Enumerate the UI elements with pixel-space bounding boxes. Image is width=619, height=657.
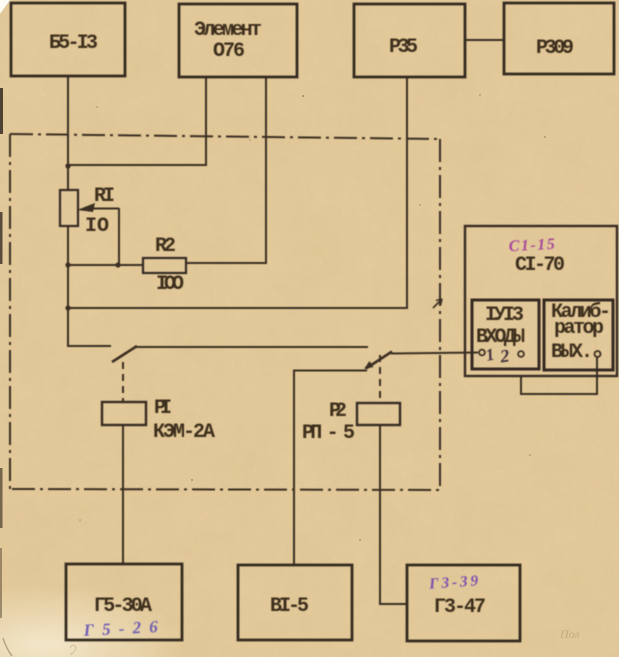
svg-text:Г3-47: Г3-47 bbox=[434, 596, 486, 619]
svg-text:R2: R2 bbox=[155, 235, 176, 258]
svg-text:ВЫХ.: ВЫХ. bbox=[551, 341, 593, 364]
svg-text:ВI-5: ВI-5 bbox=[270, 595, 309, 618]
svg-text:РП - 5: РП - 5 bbox=[302, 422, 355, 445]
svg-text:Р2: Р2 bbox=[329, 400, 347, 423]
svg-text:РI: РI bbox=[154, 397, 172, 420]
svg-text:СI-70: СI-70 bbox=[515, 254, 565, 277]
svg-text:Б5-I3: Б5-I3 bbox=[49, 32, 98, 55]
svg-text:Г5-30А: Г5-30А bbox=[94, 595, 152, 618]
svg-text:Р309: Р309 bbox=[536, 37, 574, 60]
svg-text:Элемент: Элемент bbox=[194, 19, 262, 42]
svg-text:IО: IО bbox=[85, 215, 109, 238]
svg-text:IУI3: IУI3 bbox=[485, 304, 524, 327]
svg-text:IОО: IОО bbox=[156, 273, 184, 296]
svg-text:RI: RI bbox=[94, 185, 115, 208]
svg-text:О76: О76 bbox=[213, 40, 245, 63]
svg-text:ратор: ратор bbox=[554, 317, 604, 340]
svg-text:С1-15: С1-15 bbox=[508, 236, 555, 255]
svg-text:Р35: Р35 bbox=[389, 36, 418, 59]
svg-text:Пол: Пол bbox=[559, 627, 580, 641]
svg-text:КЭМ-2А: КЭМ-2А bbox=[153, 421, 215, 444]
svg-text:Г3-39: Г3-39 bbox=[428, 572, 479, 592]
